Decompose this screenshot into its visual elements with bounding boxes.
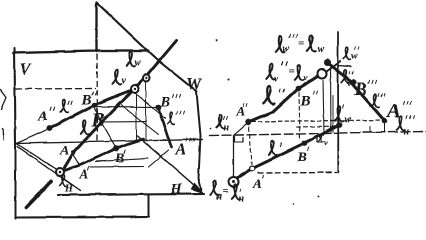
- svg-text:B: B: [114, 151, 124, 166]
- svg-text:н: н: [223, 122, 229, 133]
- svg-text:A: A: [252, 176, 262, 191]
- svg-text:w: w: [317, 44, 324, 55]
- svg-text:B: B: [159, 94, 170, 110]
- svg-text:A: A: [59, 142, 69, 157]
- svg-text:н: н: [403, 126, 409, 137]
- svg-text:w: w: [351, 50, 358, 60]
- svg-text:B: B: [90, 109, 104, 131]
- svg-text:V: V: [19, 59, 32, 78]
- svg-text:H: H: [64, 183, 74, 194]
- svg-text:=: =: [288, 65, 294, 77]
- svg-text:B: B: [353, 79, 367, 100]
- svg-text:=: =: [222, 185, 228, 197]
- svg-text:B: B: [299, 93, 310, 109]
- svg-text:v: v: [121, 75, 126, 86]
- svg-text:=: =: [298, 37, 304, 49]
- svg-text:A: A: [78, 166, 88, 181]
- svg-text:н: н: [238, 193, 244, 204]
- svg-text:B: B: [80, 92, 91, 108]
- svg-text:w: w: [134, 57, 141, 68]
- svg-text:W: W: [186, 74, 203, 93]
- svg-text:w: w: [344, 114, 351, 125]
- svg-text:B: B: [296, 150, 306, 165]
- svg-text:A: A: [385, 100, 400, 122]
- svg-text:H: H: [169, 181, 183, 197]
- svg-text:v: v: [347, 79, 351, 88]
- svg-text:A: A: [174, 141, 186, 158]
- svg-text:v: v: [324, 138, 328, 147]
- svg-text:A: A: [37, 109, 47, 124]
- svg-text:w: w: [282, 43, 289, 54]
